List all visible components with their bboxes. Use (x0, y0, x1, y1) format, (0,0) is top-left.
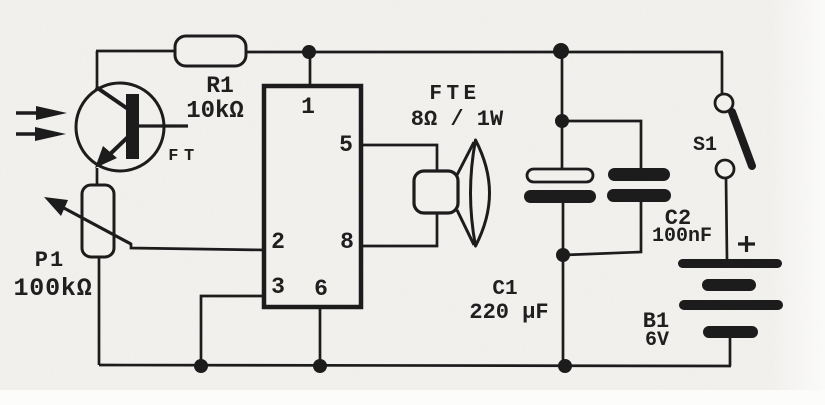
wire: top rail from R1 to switch corner (245, 51, 723, 54)
pin 5 label (339, 132, 353, 158)
potentiometer P1 wiper arrow (44, 197, 131, 244)
pin 8 label (340, 229, 354, 255)
value 8Ω / 1W (411, 107, 504, 132)
value 6V (645, 329, 669, 352)
transistor FT base lead (139, 124, 188, 127)
wire: node to IC pin 1 (309, 52, 312, 88)
pin 3 label (271, 274, 285, 300)
wire: C1 top lead (561, 51, 564, 170)
transistor FT emitter line with arrow (95, 134, 131, 168)
capacitor C1 bottom plate (524, 190, 596, 203)
switch S1 top terminal (715, 94, 733, 112)
svg-text:3: 3 (271, 274, 285, 300)
label C1 (492, 278, 517, 301)
wire: top rail left horizontal to R1 (96, 50, 176, 53)
svg-text:10kΩ: 10kΩ (186, 98, 244, 125)
svg-text:8: 8 (340, 229, 354, 255)
label B1 (643, 309, 669, 334)
svg-text:6: 6 (314, 276, 328, 302)
label S1 (693, 134, 717, 157)
svg-text:1: 1 (301, 94, 315, 120)
switch S1 lever (732, 112, 752, 166)
svg-text:8Ω / 1W: 8Ω / 1W (411, 107, 504, 132)
label R1 (206, 73, 234, 99)
svg-text:100nF: 100nF (652, 225, 712, 248)
wire: top rail left vertical from FT collector up (96, 51, 99, 90)
svg-text:FT: FT (168, 147, 199, 166)
battery B1 plus sign (738, 236, 755, 252)
wire: IC pin 5 to speaker top (361, 145, 437, 172)
capacitor C2 bottom plate (607, 189, 671, 202)
svg-text:100kΩ: 100kΩ (13, 274, 92, 303)
transistor FT base bar (126, 94, 139, 159)
node: junction dot top rail to C1 (553, 43, 569, 59)
battery B1 plate 1 long (678, 259, 782, 268)
wire: S1 to battery (726, 178, 727, 259)
value 220 µF (469, 300, 548, 325)
wire: IC pin 3 to ground rail (201, 296, 265, 365)
speaker FTE driver (414, 171, 458, 213)
capacitor C2 top plate (608, 168, 670, 181)
speaker FTE horn (457, 140, 490, 246)
capacitor C1 top plate (527, 169, 593, 182)
wire: ground rail bottom (99, 365, 731, 366)
pin 6 label (314, 276, 328, 302)
wire: FT emitter to P1 top (96, 168, 99, 186)
transistor FT body circle (76, 83, 164, 171)
svg-text:6V: 6V (645, 329, 669, 352)
node: ground dot pin 3 (194, 359, 208, 373)
wire: battery bottom lead (729, 338, 732, 366)
svg-text:S1: S1 (693, 134, 717, 157)
wire: C2 bottom branch (564, 202, 641, 255)
light arrow upper (16, 106, 67, 120)
label FTE (429, 83, 480, 106)
resistor R1 (175, 36, 246, 66)
transistor FT collector line (96, 87, 128, 109)
value 100nF (652, 225, 712, 248)
svg-text:R1: R1 (206, 73, 234, 99)
pin 2 label (271, 229, 285, 255)
svg-text:FTE: FTE (429, 83, 480, 106)
node: junction dot C1/C2 bottom (556, 248, 570, 262)
svg-text:5: 5 (339, 132, 353, 158)
label P1 (35, 248, 65, 273)
switch S1 bottom terminal (716, 160, 734, 178)
wire: C2 top branch (562, 121, 641, 169)
node: ground dot pin 6 (313, 359, 327, 373)
wire: top rail down to S1 (721, 52, 724, 95)
label FT (168, 147, 199, 166)
svg-text:P1: P1 (35, 248, 65, 273)
svg-text:C1: C1 (492, 278, 517, 301)
value 100kΩ (13, 274, 92, 303)
wire: IC pin 8 to speaker bottom (361, 212, 437, 246)
potentiometer P1 body (82, 185, 114, 257)
battery B1 plate 2 short (702, 279, 756, 291)
op-amp U1 IC box (264, 86, 361, 307)
svg-text:2: 2 (271, 229, 285, 255)
battery B1 plate 3 long (679, 300, 783, 310)
wire: P1 bottom to ground rail (98, 257, 101, 365)
wire: P1 wiper to IC pin 2 (131, 243, 265, 250)
light arrow lower (16, 127, 66, 141)
node: junction dot top rail to IC pin 1 (302, 45, 316, 59)
node: junction dot C1/C2 top (555, 114, 569, 128)
label C2 (665, 206, 691, 231)
wire: C1 bottom lead (562, 203, 565, 366)
svg-text:220 µF: 220 µF (469, 300, 548, 325)
pin 1 label (301, 94, 315, 120)
wire: IC pin 6 to ground rail (319, 307, 322, 365)
value 10kΩ (186, 98, 244, 125)
battery B1 plate 4 short (703, 326, 758, 338)
node: ground dot C1 (558, 359, 572, 373)
